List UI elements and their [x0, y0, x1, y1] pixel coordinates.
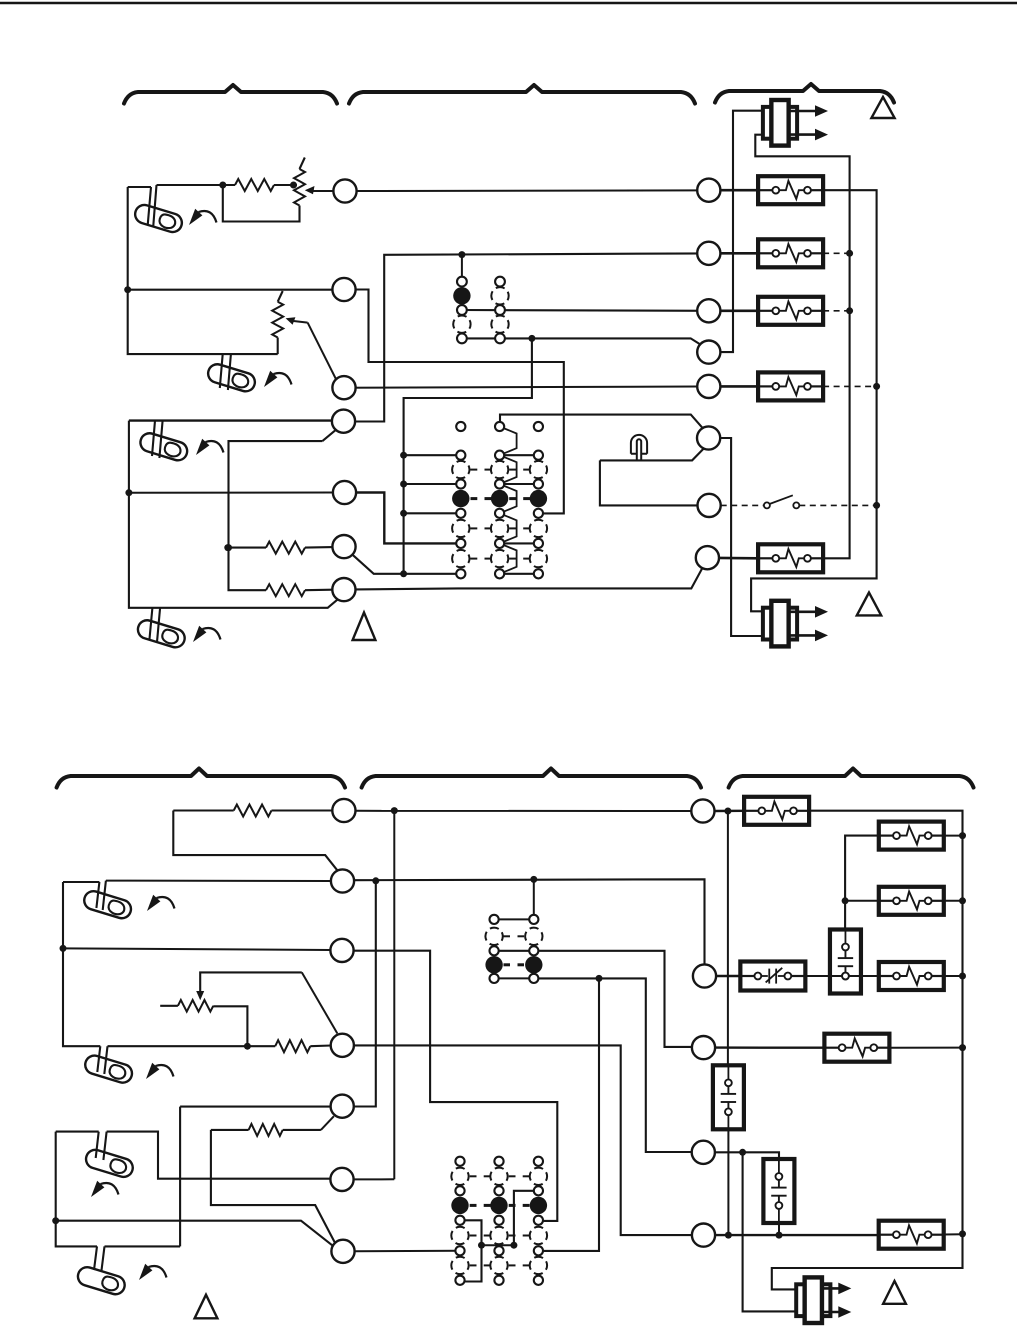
- breaker FB2: [879, 822, 944, 850]
- wire FB3 to branch: [845, 900, 879, 902]
- dashed link G to switch SW1: [721, 504, 764, 506]
- lamp L4 filament blob: [161, 628, 180, 645]
- lamp M-L3 filament blob: [109, 1158, 128, 1175]
- wire circle L5 to switch row: [356, 493, 461, 544]
- breaker CB2: [758, 239, 823, 267]
- rheostat VR2: [272, 302, 283, 338]
- connector circle L1: [333, 179, 356, 202]
- wire N3 to breaker FB5: [715, 1046, 825, 1048]
- wire H to breaker CB5: [719, 557, 758, 560]
- wire C to breaker CB3: [720, 309, 758, 312]
- VR3 wiper diagonal to circle M4: [302, 972, 338, 1033]
- wire circle L3 to circle E: [344, 387, 697, 388]
- junction dot right of R1: [290, 182, 297, 189]
- wire rail2 to circle L4: [129, 419, 332, 421]
- wire CB1 to right bus: [751, 190, 877, 611]
- lamp M-L4 filament blob: [101, 1275, 120, 1292]
- switch T2 col3 riser: [514, 1191, 539, 1245]
- switch T2 link wire: [482, 1244, 514, 1246]
- connector circle C: [697, 299, 720, 322]
- switch T1 contacts: [490, 915, 499, 924]
- triangle note marker 5: [883, 1281, 906, 1304]
- junction dot T2 bracket: [478, 1242, 485, 1249]
- junction dot M2 wire riser: [372, 877, 379, 884]
- wire switch box to FB4: [805, 975, 879, 977]
- wire junction riser to circle F: [564, 415, 702, 428]
- rheostat VR1: [294, 169, 305, 206]
- breaker CB4: [758, 372, 823, 400]
- junction dot N5-RL2: [725, 1232, 732, 1239]
- connector circle M1: [332, 799, 355, 822]
- switch S1 wire row 310: [462, 309, 709, 312]
- page top border: [0, 2, 1017, 5]
- connector circle N4: [692, 1141, 715, 1164]
- wire rail2 to circle L5: [129, 492, 333, 494]
- wire M7 to switch T2 col1: [355, 1250, 460, 1252]
- connector circle M5: [331, 1095, 354, 1118]
- lamp M-L4 rotate arrow: [139, 1264, 167, 1280]
- junction dot N1 bus: [724, 808, 731, 815]
- switch S2 contact ticks: [471, 469, 478, 471]
- dashed link CB4 to bus: [823, 385, 877, 387]
- wire circle L2 to switch riser: [344, 290, 564, 514]
- wire N4 branch to lower connector: [743, 1152, 796, 1311]
- wire through relay RL1: [830, 975, 861, 977]
- connector circle L5: [333, 481, 356, 504]
- lamp L2 body: [206, 362, 257, 394]
- connector circle M3: [330, 939, 353, 962]
- switch T1 mid row wire to circle N3: [494, 951, 692, 1047]
- wire M6 to vertical bus: [354, 1178, 395, 1180]
- junction dot at R3 wire: [224, 544, 231, 551]
- dashed link CB2 to bus: [823, 252, 850, 254]
- brace section 1 (top): [124, 85, 337, 104]
- switch S2 wire r3 c2-c3: [500, 483, 539, 485]
- wire to circle L7 with resistor R4: [229, 441, 323, 590]
- long wire to circle M7: [56, 1221, 335, 1247]
- junction dot rail3 r3: [400, 481, 407, 488]
- lamp L1 body (top-left illumination lamp): [133, 203, 184, 235]
- brace section 3 (top): [715, 84, 894, 103]
- lamp M-L1 filament blob: [107, 899, 126, 916]
- wire circle F to lower connector: [720, 438, 763, 636]
- junction dot bus3-FB2: [959, 832, 966, 839]
- lamp L4 leads: [149, 608, 160, 642]
- upper harness connector: [763, 107, 775, 139]
- junction dot on top rail: [458, 251, 465, 258]
- connector circle E: [697, 375, 720, 398]
- wire FB5 to bus3: [889, 1047, 962, 1049]
- VR2 bottom return wire: [277, 338, 279, 355]
- connector circle D: [697, 341, 720, 364]
- connector circle M2: [331, 869, 354, 892]
- connector circle L2: [332, 278, 355, 301]
- switch T2 contacts: [455, 1157, 464, 1166]
- lamp M-L3 body: [84, 1148, 135, 1180]
- connector circle N1: [691, 799, 714, 822]
- lamp M-L2 filament blob: [108, 1064, 127, 1081]
- left rail of lamp group 1: [128, 187, 278, 354]
- wire B to breaker CB2: [720, 252, 758, 255]
- breaker FB1: [744, 797, 809, 825]
- connector circle M6: [330, 1168, 353, 1191]
- wire dot to switch T2 col3 row7: [538, 978, 599, 1251]
- breaker FB6: [879, 1221, 944, 1249]
- wire circle L7 to circle H: [355, 567, 703, 590]
- wire lamp M-L3 to circle M6: [107, 1132, 331, 1179]
- brace section 6 (bottom): [729, 769, 974, 788]
- connector circle M7: [331, 1240, 354, 1263]
- lamp M-L2 body: [83, 1053, 134, 1085]
- wire rail to circle M3: [63, 948, 331, 950]
- junction dot rail3 r2: [400, 452, 407, 459]
- breaker CB1: [758, 176, 823, 204]
- rheostat VR3: [160, 1005, 178, 1007]
- wire rail3 to r3: [404, 483, 461, 485]
- breaker FB3: [879, 887, 944, 915]
- junction dot rail1-L2: [124, 286, 131, 293]
- lamp L3 filament blob: [163, 441, 182, 458]
- junction dot rail3 r4: [400, 510, 407, 517]
- wire resistor R5 to circle M1: [173, 809, 233, 811]
- left rail 2 (lamp group 2): [129, 421, 339, 608]
- junction dot M1 wire: [391, 807, 398, 814]
- lighting switch S1 feed stub: [461, 255, 463, 282]
- lamp L1 leads: [148, 185, 157, 227]
- switch SW1 contacts: [764, 502, 770, 508]
- lamp M-L1 rotate arrow: [147, 895, 175, 911]
- switch S1 wire row 338: [462, 338, 703, 345]
- lamp L2 leads: [220, 354, 231, 390]
- wire lamp M-L4 to drop wire: [105, 1245, 181, 1247]
- switch T1 contact ticks: [504, 935, 511, 937]
- wire N1 to breaker FB1: [714, 810, 744, 813]
- lamp L4 rotate arrow: [193, 626, 221, 642]
- connector circle A: [697, 179, 720, 202]
- wire resistor R7 diagonal to M5: [211, 1129, 249, 1131]
- VR3 wiper wire: [200, 972, 302, 992]
- switch T1 riser to M2 wire: [533, 879, 535, 919]
- triangle note marker 4: [195, 1295, 218, 1319]
- junction dot bracket-long wire: [52, 1217, 59, 1224]
- connector circle M4: [331, 1034, 354, 1057]
- wire corner to circle M5: [180, 1107, 331, 1247]
- wire circle L1 to circle A: [357, 189, 698, 192]
- riser to lighting-switch column 2: [500, 415, 564, 427]
- wire M3 to switch T2 col3: [354, 951, 558, 1221]
- switch T2 bracket col1: [460, 1220, 482, 1281]
- lamp M-L2 leads: [97, 1046, 107, 1074]
- lamp L3 body: [138, 431, 189, 463]
- connector circle N2: [693, 964, 716, 987]
- wire R1 to rheostat VR1: [274, 184, 297, 186]
- lamp M-L1 body: [82, 889, 133, 921]
- junction dot on drop wire: [225, 544, 232, 551]
- VR3 right terminal wire: [213, 1006, 247, 1046]
- junction dot bus2-switch: [873, 502, 880, 509]
- wire lamp M-L2 to resistor R6 to circle M4: [108, 1045, 276, 1047]
- lamp M-L2 rotate arrow: [146, 1063, 174, 1079]
- junction dot bus3-FB3: [959, 897, 966, 904]
- wire E to breaker CB4: [720, 385, 758, 388]
- wire R7 drop to switch row: [211, 1130, 336, 1244]
- vertical wire dot-M1 to M6: [393, 811, 395, 1180]
- bypass wire under R1: [223, 185, 300, 222]
- junction dot rail3-r6: [400, 570, 407, 577]
- lamp1 bracket wire: [63, 882, 100, 1046]
- junction dot FB3 branch: [842, 897, 849, 904]
- wire circle D to upper connector: [720, 111, 764, 352]
- switch S2 wiper links: [500, 427, 517, 456]
- lamp L2 rotate arrow: [264, 371, 292, 387]
- wire M1 to circle N1: [356, 810, 692, 812]
- wire FB2 to bus3: [944, 835, 963, 837]
- wire rail3 to r2: [404, 454, 461, 456]
- breaker CB5: [758, 544, 823, 572]
- junction dot T2 link: [510, 1242, 517, 1249]
- dashed link CB3 to bus: [823, 310, 850, 312]
- lamp L3 rotate arrow: [196, 439, 224, 455]
- switch T1 top row wire: [494, 918, 534, 920]
- junction dot bus1-CB2: [846, 250, 853, 257]
- brace section 2 (top): [349, 85, 695, 104]
- lamp M-L1 leads: [96, 881, 106, 910]
- junction dot rail-M3: [60, 945, 67, 952]
- brace section 5 (bottom): [362, 769, 701, 788]
- wire FB6 to bus3: [944, 1233, 963, 1235]
- triangle note marker 1: [871, 97, 894, 118]
- wire FB1 to right bus: [772, 811, 963, 1290]
- wire M2 to circle N2: [354, 879, 705, 965]
- lamp L3 leads: [152, 421, 163, 458]
- wire N2 to defog switch box: [716, 975, 740, 977]
- breaker CB3: [758, 297, 823, 325]
- lamp M-L3 leads: [96, 1132, 107, 1160]
- connector circle L7: [332, 578, 355, 601]
- lamp L1 rotate arrow: [189, 209, 217, 225]
- junction dot bus3-FB4: [959, 973, 966, 980]
- vertical bus N1 to relay RL2: [727, 811, 729, 1065]
- wire N4 to relay RL3: [715, 1152, 779, 1159]
- junction dot rail2-L5: [125, 489, 132, 496]
- connector circle L3: [332, 376, 355, 399]
- dashed link SW1 to bus: [799, 504, 876, 506]
- junction dot T1 bottom wire: [596, 975, 603, 982]
- junction dot left of R1: [219, 182, 226, 189]
- connector circle N3: [692, 1036, 715, 1059]
- bottom harness connector: [796, 1284, 808, 1316]
- lamp M-L4 leads: [94, 1246, 105, 1272]
- switch S2 wire r5 c2-c3: [500, 542, 539, 544]
- switch S2 wire r2 c2-c3: [500, 454, 539, 456]
- switch T1 bottom wire to circle N4: [534, 978, 692, 1152]
- wire rail1 to circle L2: [128, 289, 333, 291]
- indicator bulb: [631, 435, 647, 454]
- wire circle L4 to top rail and circle B: [344, 253, 709, 421]
- junction dot N5-RL3: [776, 1232, 783, 1239]
- switch S1 contacts: [457, 277, 467, 287]
- lamp3 bracket wire: [56, 1132, 99, 1247]
- connector circle H: [696, 546, 719, 569]
- wire circle L6 to switch row r6: [353, 555, 461, 574]
- wire circle M5 to M2 wire riser: [353, 881, 375, 1107]
- relay RL2: [713, 1065, 744, 1129]
- junction dot VR3-R6: [244, 1043, 251, 1050]
- lamp M-L3 rotate arrow: [91, 1181, 119, 1197]
- wire M4 to circle N5: [354, 1045, 693, 1235]
- connector circle G: [698, 494, 721, 517]
- wire S1 to headlamp rail: [404, 338, 532, 573]
- wire relay RL2 to N5 wire: [727, 1130, 729, 1236]
- triangle note marker 2: [353, 613, 376, 641]
- switch S2 contacts: [456, 422, 465, 431]
- connector circle F: [697, 426, 720, 449]
- junction dot N4 branch: [739, 1149, 746, 1156]
- junction dot S1 row 338: [528, 335, 535, 342]
- switch T1 bottom row wire: [494, 977, 534, 979]
- wire FB2 branch: [845, 836, 879, 930]
- connector circle L4: [332, 410, 355, 433]
- switch S2 wire r6 c2-c3: [500, 573, 539, 575]
- junction dot bus1-CB3: [846, 307, 853, 314]
- breaker FB4: [879, 962, 944, 990]
- wire lamp L1 to resistor R1: [157, 184, 236, 186]
- relay RL1 bottom contact: [842, 973, 849, 980]
- breaker FB5: [824, 1034, 889, 1062]
- wire rail3 to r4: [404, 512, 461, 514]
- wire to circle L6 with resistor R3: [228, 547, 266, 549]
- lamp L2 filament blob: [231, 372, 250, 389]
- VR2 wiper diagonal to circle L3: [308, 323, 337, 380]
- triangle note marker 3: [857, 593, 881, 616]
- defogger switch box: [740, 962, 805, 991]
- lamp L4 body: [136, 618, 187, 650]
- lower harness connector: [763, 608, 775, 640]
- connector circle L6: [332, 535, 355, 558]
- switch T2 contact ticks: [470, 1175, 477, 1177]
- brace section 4 (bottom): [57, 769, 345, 788]
- wire lamp M-L1 to circle M2: [106, 880, 331, 882]
- resistor R1: [235, 179, 274, 191]
- VR1 wiper arrow from circle L1: [312, 190, 334, 192]
- wire FB4 to bus3: [944, 975, 963, 977]
- wire relay RL3 to N5 wire: [778, 1223, 780, 1235]
- bulb loop wire to circles F and G: [600, 449, 704, 506]
- junction dot bus3-FB6: [959, 1230, 966, 1237]
- relay RL1: [830, 930, 861, 994]
- junction dot M2 wire: [530, 876, 537, 883]
- lamp M-L4 body: [76, 1265, 127, 1297]
- connector circle N5: [692, 1224, 715, 1247]
- wire CB5 to bus1: [755, 135, 849, 559]
- wire FB3 to bus3: [944, 900, 963, 902]
- wire N5 to breaker FB6: [715, 1234, 879, 1236]
- junction dot bus2-CB4: [873, 383, 880, 390]
- wire A to breaker CB1: [720, 189, 758, 192]
- relay RL3: [763, 1159, 794, 1223]
- diagonal L4 to drop wire: [322, 429, 336, 441]
- wire R5 loop to circle M2: [173, 811, 338, 872]
- junction dot bus3-FB5: [959, 1044, 966, 1051]
- connector circle B: [697, 242, 720, 265]
- lamp L1 filament blob: [158, 213, 177, 230]
